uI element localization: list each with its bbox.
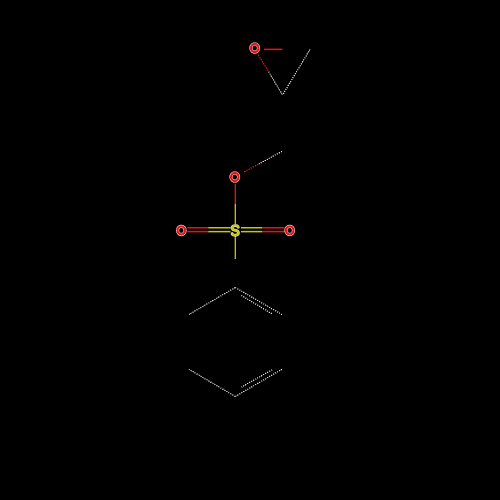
benzene edge D-E [189,369,235,396]
double bond S=O3 left line1 [187,227,208,229]
bond O1-C2 epoxide (carbon half, diagonal) [269,72,283,95]
double bond S=O4 right line1 [241,227,262,229]
benzene edge A-F [189,288,235,315]
atom label O4 right [286,226,294,234]
bond O1-C2 epoxide (red half, diagonal) [258,55,268,72]
benzene inner double line A-B [241,295,272,314]
bond C3-O2 (carbon half, diagonal) [258,151,282,164]
benzene edge D-C [235,369,282,396]
bond C3-O2 (red half, diagonal) [244,164,259,172]
atom label O3 left [178,226,186,234]
bond C1-C2 epoxide (diagonal) [283,50,311,96]
atom label O1 epoxide [251,44,259,52]
double bond S=O4 right line2 [241,231,262,233]
bond S-C4 aryl (sulfur half, vertical) [234,236,236,259]
bond O1-C1 epoxide (red half, horizontal) [264,48,283,50]
bond O2-S (red half, vertical) [234,184,236,204]
benzene inner double line C-D [242,370,273,387]
benzene edge A-B [235,288,282,315]
bond O2-S (sulfur half, vertical) [234,204,236,225]
atom label S [232,226,238,236]
double bond S=O3 left line2 [187,231,208,233]
atom label O2 ester [231,173,239,181]
